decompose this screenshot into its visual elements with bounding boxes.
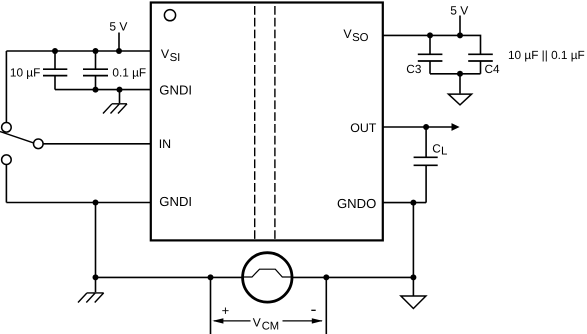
svg-text:GNDI: GNDI (159, 82, 192, 97)
svg-text:C3: C3 (406, 62, 422, 76)
svg-text:VSO: VSO (343, 27, 368, 44)
svg-text:+: + (222, 303, 230, 318)
svg-text:10 µF || 0.1 µF: 10 µF || 0.1 µF (508, 48, 585, 62)
svg-text:VCM: VCM (253, 316, 279, 333)
svg-text:0.1 µF: 0.1 µF (112, 66, 146, 80)
svg-text:GNDO: GNDO (337, 196, 376, 211)
svg-text:CL: CL (432, 141, 448, 157)
svg-text:5 V: 5 V (450, 4, 468, 18)
svg-text:10 µF: 10 µF (10, 65, 40, 79)
svg-text:C4: C4 (485, 62, 501, 76)
svg-text:OUT: OUT (350, 121, 377, 135)
svg-text:GNDI: GNDI (159, 194, 192, 209)
svg-text:IN: IN (159, 137, 171, 151)
svg-text:5 V: 5 V (109, 20, 127, 34)
svg-text:VSI: VSI (161, 47, 180, 64)
